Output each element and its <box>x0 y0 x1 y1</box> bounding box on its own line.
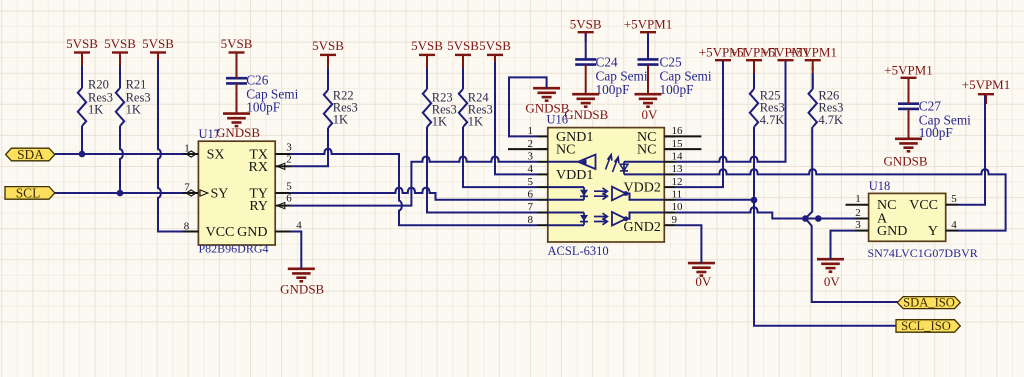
resistor R22 <box>324 88 358 128</box>
wire TX net (U17 pin3 to U16 pin8, hops TY RY) <box>291 149 538 225</box>
U16 pin number 2 <box>528 138 534 150</box>
svg-text:5VSB: 5VSB <box>312 38 344 53</box>
resistor R23 <box>423 89 457 129</box>
U17 pin6 input arrow <box>277 203 285 209</box>
U16 pin 9 stub <box>664 224 675 226</box>
ground 0V (U16 GND2) <box>688 263 715 276</box>
svg-text:4: 4 <box>951 219 957 231</box>
resistor R25 <box>750 89 785 128</box>
svg-text:16: 16 <box>672 125 684 137</box>
wire U17 pin4 to GNDSB <box>291 232 302 269</box>
U17 pin label RX <box>249 160 268 175</box>
power port 5VSB #9 (C24) <box>570 17 602 42</box>
power port +5VPM1 #4 <box>761 45 810 70</box>
U17 pin label RY <box>249 199 268 214</box>
svg-text:U18: U18 <box>869 179 891 193</box>
U16 pin 1 stub <box>537 135 548 137</box>
U16 opto ch2 (pins 5/6 -> 11) <box>548 187 665 201</box>
U16 pin 12 stub <box>664 186 675 188</box>
svg-text:GNDSB: GNDSB <box>883 154 927 169</box>
U17 pin number 5 <box>286 180 292 192</box>
svg-text:0V: 0V <box>695 274 712 289</box>
svg-text:1: 1 <box>528 125 534 137</box>
svg-text:5VSB: 5VSB <box>221 36 253 51</box>
power port +5VPM1 #2 <box>699 45 748 70</box>
power port 5VSB #1 <box>66 36 98 62</box>
svg-text:5VSB: 5VSB <box>142 36 174 51</box>
U18 pin label GND <box>877 224 907 239</box>
svg-text:+5VPM1: +5VPM1 <box>884 62 933 77</box>
svg-text:GNDSB: GNDSB <box>280 282 324 297</box>
svg-text:6: 6 <box>528 189 534 201</box>
label ACSL-6310 <box>548 244 609 258</box>
wire TY net (U17 pin5 to U16 pin6) <box>291 188 538 200</box>
U16 pin number 16 <box>672 125 684 137</box>
resistor R26 <box>809 89 844 128</box>
U18 pin number 3 <box>855 219 861 231</box>
wire R20 top navy <box>81 66 83 88</box>
U16 pin 16 stub <box>664 135 675 137</box>
U16 pin number 7 <box>528 201 534 213</box>
U16 pin 5 stub <box>537 186 548 188</box>
U16 opto ch1 receiver triangle <box>578 155 596 169</box>
wire R25 top <box>753 67 755 89</box>
U18 pin label NC <box>877 198 896 213</box>
svg-text:SX: SX <box>207 148 225 163</box>
U17 pin label TX <box>249 148 268 163</box>
U16 pin 3 stub <box>537 161 548 163</box>
svg-text:0V: 0V <box>642 107 659 122</box>
wire R23 top navy <box>426 68 428 89</box>
wire U16 pin14 to +5VPM1 (hops at 723 and 754) <box>675 61 786 162</box>
wire R23 top <box>426 62 428 89</box>
U18 pin number 1 <box>855 193 861 205</box>
svg-text:GNDSB: GNDSB <box>216 125 260 140</box>
power port +5VPM1 #7 (U18 VCC) <box>962 77 1011 104</box>
wire R23 bottom to U16 pin7 <box>427 127 537 213</box>
U17 pin number 7 <box>184 182 190 194</box>
wire SDA net (port to U17 SX) <box>55 153 183 155</box>
wire C24 top <box>585 33 587 59</box>
U17 pin number 3 <box>286 141 292 153</box>
capacitor C25 <box>638 54 712 97</box>
svg-text:C25: C25 <box>660 54 683 69</box>
label GNDSB (U16 GND1) <box>525 101 569 116</box>
U16 pin 6 stub <box>537 199 548 201</box>
IC U17 P82B96DRG4 body <box>198 141 275 245</box>
U18 pin number 4 <box>951 219 957 231</box>
wire U16 GND1 to GNDSB <box>509 77 547 136</box>
svg-text:100pF: 100pF <box>660 82 694 97</box>
svg-text:5VSB: 5VSB <box>447 38 479 53</box>
ground 0V (U18 GND) <box>817 259 844 272</box>
wire R20 top (5VSB to R20) <box>81 60 83 88</box>
U18 pin label A <box>877 212 888 227</box>
wire C27 bottom <box>908 109 910 139</box>
wire R25 bottom to SCL_ISO (junction at pin11) <box>754 127 896 326</box>
label SN74LVC1G07DBVR <box>868 246 978 260</box>
svg-text:1K: 1K <box>468 115 483 129</box>
wire SCL net (port to U17 SY) <box>55 192 183 194</box>
label U16 designator <box>547 112 569 126</box>
U17 pin7 bidir glyph <box>186 190 196 197</box>
svg-text:GND: GND <box>237 225 267 240</box>
U16 opto ch1 output arrowhead <box>579 159 587 165</box>
wire R26 bottom diagonal to A net <box>805 127 812 219</box>
wire +5VPM1 to U18 VCC (hops pin13 net) <box>958 95 985 205</box>
label 0V (U16 GND2) <box>695 274 712 289</box>
U16 pin number 5 <box>528 176 534 188</box>
svg-text:1K: 1K <box>88 103 103 117</box>
junction R20/SDA <box>79 151 86 158</box>
U17 pin label TY <box>249 186 268 201</box>
U17 pin 2 stub <box>275 165 290 167</box>
wire R21 top (5VSB to R21) <box>119 60 121 88</box>
wire R22 top (5VSB to R22) <box>327 62 329 90</box>
U17 pin number 1 <box>184 143 190 155</box>
wire R26 top navy <box>812 73 814 89</box>
svg-text:R21: R21 <box>126 77 147 91</box>
U16 opto ch3 (pins 7/8 -> 10) <box>548 212 665 226</box>
svg-text:C24: C24 <box>596 54 619 69</box>
wire R22 top navy <box>327 68 329 90</box>
U16 pin number 6 <box>528 189 534 201</box>
U18 pin 2 stub <box>855 218 869 220</box>
U17 pin 7 stub <box>183 192 198 194</box>
svg-text:NC: NC <box>556 143 575 158</box>
U17 pin number 4 <box>296 219 302 231</box>
svg-text:2: 2 <box>528 138 534 150</box>
wire +5VPM1 to U16 VDD2 pin12 <box>675 61 723 187</box>
svg-text:4: 4 <box>296 219 302 231</box>
U18 pin 1 stub <box>846 204 869 206</box>
U16 pin 4 stub <box>537 173 548 175</box>
U16 pin 14 stub <box>664 161 675 163</box>
IC U16 ACSL-6310 body <box>548 128 665 242</box>
label 0V (U18 GND) <box>824 274 841 289</box>
label U18 designator <box>869 179 891 193</box>
svg-text:2: 2 <box>855 207 861 219</box>
label GNDSB (U17) <box>280 282 324 297</box>
wire C27 top <box>908 79 910 104</box>
U17 pin label SY <box>211 186 229 201</box>
svg-text:1K: 1K <box>333 112 348 126</box>
svg-text:U17: U17 <box>199 127 221 141</box>
port SCL <box>5 185 55 200</box>
port SCL_ISO <box>896 319 960 333</box>
junction R25/pin11 <box>751 197 758 204</box>
power port 5VSB #6 (R23) <box>411 38 443 65</box>
U17 pin7 input arrow <box>200 190 208 196</box>
label 0V (C25) <box>642 107 659 122</box>
wire C26 bottom to GNDSB <box>236 83 238 113</box>
wire 5VSB to U16 VDD1 pin4 <box>495 62 537 174</box>
U17 pin 1 stub <box>183 153 198 155</box>
svg-text:5VSB: 5VSB <box>66 36 98 51</box>
port SDA_ISO <box>897 296 960 310</box>
ground GNDSB (C26) <box>223 114 250 127</box>
svg-text:VCC: VCC <box>909 198 938 213</box>
U16 pin 13 stub <box>664 173 675 175</box>
svg-text:U16: U16 <box>547 112 569 126</box>
U16 pin number 11 <box>672 189 683 201</box>
svg-text:Y: Y <box>928 224 938 239</box>
ground GNDSB (C27) <box>895 139 922 152</box>
label GNDSB (C27) <box>883 154 927 169</box>
wire R24 bottom to U16 pin5 <box>463 127 537 187</box>
U16 pin number 8 <box>528 214 534 226</box>
U16 pin 2 stub <box>537 148 548 150</box>
U18 pin 5 stub <box>946 204 958 206</box>
U16 pin 15 stub <box>664 148 675 150</box>
U16 opto ch1 output line <box>548 161 578 163</box>
junction R21/SCL <box>117 190 124 197</box>
U16 pin 11 stub <box>664 199 675 201</box>
resistor R21 <box>116 77 151 126</box>
junction A-net/R26 <box>802 215 809 222</box>
svg-text:5: 5 <box>951 193 957 205</box>
svg-text:0V: 0V <box>824 274 841 289</box>
U16 pin label NC <box>637 130 656 145</box>
svg-text:RX: RX <box>249 160 268 175</box>
capacitor C24 <box>575 54 648 97</box>
wire C24 bottom <box>585 65 587 95</box>
svg-text:GND: GND <box>877 224 907 239</box>
svg-text:GND2: GND2 <box>624 220 661 235</box>
U16 opto ch1 rail to pin13 <box>624 173 664 175</box>
U16 pin number 4 <box>528 163 534 175</box>
svg-text:GNDSB: GNDSB <box>564 107 608 122</box>
svg-text:SN74LVC1G07DBVR: SN74LVC1G07DBVR <box>868 246 978 260</box>
wire R20 bottom to SDA <box>81 126 83 154</box>
U16 pin number 1 <box>528 125 534 137</box>
ground GNDSB (C24) <box>572 94 599 107</box>
svg-text:VDD1: VDD1 <box>556 168 593 183</box>
svg-text:4: 4 <box>528 163 534 175</box>
svg-text:5: 5 <box>286 180 292 192</box>
power port 5VSB #8 (VDD1) <box>479 38 511 65</box>
U16 pin label NC <box>637 143 656 158</box>
power port +5VPM1 #5 (R26) <box>788 45 837 70</box>
wire R24 top <box>462 62 464 89</box>
resistor R20 <box>78 77 113 126</box>
wire R21 top navy <box>119 66 121 88</box>
label GNDSB (C26) <box>216 125 260 140</box>
svg-text:3: 3 <box>855 219 861 231</box>
wire C25 top <box>647 33 649 59</box>
U17 pin label GND <box>237 225 267 240</box>
wire R22 bottom to U17 RX <box>291 128 329 166</box>
U16 pin 2 NC stub <box>508 148 548 150</box>
svg-text:5: 5 <box>528 176 534 188</box>
U16 pin 10 stub <box>664 212 675 214</box>
resistor R24 <box>459 89 493 129</box>
U16 pin label VDD1 <box>556 168 593 183</box>
svg-text:5VSB: 5VSB <box>570 17 602 32</box>
svg-text:5VSB: 5VSB <box>411 38 443 53</box>
svg-text:3: 3 <box>286 141 292 153</box>
U16 pin 15 NC stub <box>664 148 701 150</box>
wire R24 top navy <box>462 68 464 89</box>
IC U18 SN74LVC1G07DBVR body <box>869 193 946 241</box>
U17 pin2 input arrow <box>277 163 285 169</box>
svg-text:12: 12 <box>672 176 683 188</box>
U17 pin 3 stub <box>275 153 290 155</box>
wire R21 bottom to SCL (hop over SDA) <box>120 126 123 193</box>
wire U16 pin13 to U18 Y (long net) <box>675 169 1006 230</box>
U18 pin label Y <box>928 224 938 239</box>
svg-text:C27: C27 <box>919 99 942 114</box>
svg-text:5VSB: 5VSB <box>479 38 511 53</box>
svg-text:+5VPM1: +5VPM1 <box>962 77 1011 92</box>
ground GNDSB (U16 GND1) <box>533 88 560 101</box>
U17 pin number 8 <box>184 220 190 232</box>
U18 pin 3 stub <box>855 230 869 232</box>
svg-text:NC: NC <box>637 143 656 158</box>
wire R25 top navy <box>753 73 755 89</box>
wire RY net (U17 pin6 up to U16 pin3) <box>291 157 538 206</box>
U16 pin number 15 <box>672 138 684 150</box>
power port 5VSB #3 <box>142 36 174 62</box>
svg-text:3: 3 <box>528 150 534 162</box>
svg-text:6: 6 <box>286 193 292 205</box>
U17 pin 8 stub <box>183 231 198 233</box>
wire C25 bottom <box>647 65 649 95</box>
wire U18 GND to 0V <box>831 231 856 260</box>
U17 pin label VCC <box>206 225 235 240</box>
U16 pin number 13 <box>672 163 684 175</box>
svg-text:15: 15 <box>672 138 684 150</box>
power port 5VSB #2 <box>104 36 136 62</box>
U16 pin 7 stub <box>537 212 548 214</box>
U17 pin1 bidir glyph <box>186 151 196 158</box>
U16 pin number 10 <box>672 201 684 213</box>
svg-text:R20: R20 <box>88 77 109 91</box>
capacitor C26 <box>226 72 299 114</box>
junction A-net/SDA_ISO branch <box>815 215 822 222</box>
svg-text:11: 11 <box>672 189 683 201</box>
U16 pin number 14 <box>672 150 684 162</box>
U17 pin 4 stub <box>275 231 290 233</box>
svg-text:4.7K: 4.7K <box>760 113 785 127</box>
U16 pin label NC <box>556 143 575 158</box>
U16 opto ch1 rail to pin14 <box>624 161 664 163</box>
ground 0V (C25) <box>635 94 662 107</box>
wire U16 pin11 to R25 <box>675 199 754 201</box>
svg-text:10: 10 <box>672 201 684 213</box>
svg-text:7: 7 <box>528 201 534 213</box>
svg-text:1: 1 <box>855 193 861 205</box>
svg-text:SDA: SDA <box>17 147 44 162</box>
wire C26 top <box>236 53 238 78</box>
label GNDSB (C24) <box>564 107 608 122</box>
capacitor C27 <box>898 99 971 140</box>
power port 5VSB #4 (C26) <box>221 36 253 62</box>
svg-text:C26: C26 <box>246 72 269 87</box>
svg-text:100pF: 100pF <box>246 99 280 114</box>
port SDA <box>6 147 55 162</box>
U18 pin number 5 <box>951 193 957 205</box>
power port +5VPM1 #3 (R25) <box>730 45 779 70</box>
svg-text:9: 9 <box>672 214 678 226</box>
U16 opto ch1 LED <box>620 162 628 175</box>
wire U16 pin9 to 0V <box>675 225 701 263</box>
svg-text:SCL: SCL <box>16 185 41 200</box>
svg-text:SY: SY <box>211 186 229 201</box>
svg-text:+5VPM1: +5VPM1 <box>624 17 673 32</box>
svg-text:1K: 1K <box>126 103 141 117</box>
label U17 designator <box>199 127 221 141</box>
svg-text:1K: 1K <box>432 115 447 129</box>
U18 pin number 2 <box>855 207 861 219</box>
svg-text:SDA_ISO: SDA_ISO <box>903 296 955 310</box>
U18 pin label VCC <box>909 198 938 213</box>
svg-text:ACSL-6310: ACSL-6310 <box>548 244 609 258</box>
U16 pin 16 NC stub <box>664 135 701 137</box>
svg-text:RY: RY <box>249 199 268 214</box>
power port 5VSB #7 (R24) <box>447 38 479 65</box>
svg-text:14: 14 <box>672 150 684 162</box>
svg-text:P82B96DRG4: P82B96DRG4 <box>199 242 269 256</box>
svg-text:SCL_ISO: SCL_ISO <box>901 319 951 333</box>
U16 pin label VDD2 <box>624 181 661 196</box>
power port +5VPM1 #1 (C25) <box>624 17 673 42</box>
wire A-net branch to SDA_ISO <box>805 219 898 303</box>
U17 pin 5 stub <box>275 192 290 194</box>
power port +5VPM1 #6 (C27) <box>884 62 933 87</box>
ground GNDSB (U17 pin4) <box>288 269 315 282</box>
svg-text:8: 8 <box>528 214 534 226</box>
svg-text:13: 13 <box>672 163 684 175</box>
U16 pin 8 stub <box>537 224 548 226</box>
wire U16 pin10 to U18 A (hops R25, steps down) <box>675 207 855 218</box>
svg-text:+5VPM1: +5VPM1 <box>788 45 837 60</box>
U16 pin label GND1 <box>556 130 593 145</box>
power port 5VSB #5 (R22) <box>312 38 344 65</box>
svg-text:100pF: 100pF <box>919 125 953 140</box>
wire 5VSB column to U17 VCC (hops SDA and SCL) <box>158 60 183 232</box>
U17 pin 6 stub <box>275 205 290 207</box>
U17 pin label SX <box>207 148 225 163</box>
svg-text:5VSB: 5VSB <box>104 36 136 51</box>
U16 opto ch1 light arrows <box>606 155 619 172</box>
svg-text:VCC: VCC <box>206 225 235 240</box>
wire R26 top <box>812 67 814 89</box>
label P82B96DRG4 <box>199 242 269 256</box>
U16 pin label GND2 <box>624 220 661 235</box>
U16 pin number 12 <box>672 176 683 188</box>
svg-text:100pF: 100pF <box>596 82 630 97</box>
U17 pin number 6 <box>286 193 292 205</box>
U17 pin number 2 <box>286 153 292 165</box>
svg-text:2: 2 <box>286 153 292 165</box>
svg-text:4.7K: 4.7K <box>818 113 843 127</box>
U16 pin number 9 <box>672 214 678 226</box>
U18 pin 4 stub <box>946 230 958 232</box>
U16 pin number 3 <box>528 150 534 162</box>
